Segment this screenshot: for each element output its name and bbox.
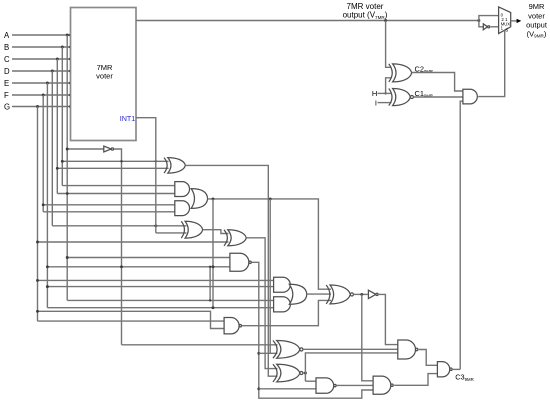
xor gate X3 bbox=[228, 230, 247, 246]
wire XN2 riser to N5 input c bbox=[305, 353, 397, 381]
wire L17 to N2 input b bbox=[38, 311, 225, 328]
wire L14 to A3 input b bbox=[47, 286, 273, 288]
node A branch junction bbox=[66, 34, 69, 37]
wire L12 to N1 input b bbox=[47, 266, 229, 268]
wire input B bbox=[12, 46, 71, 48]
xnor gate X-C1 bbox=[393, 89, 411, 106]
wire N1 output column M2 / bottom rail to N4 input c bbox=[252, 262, 374, 398]
wire input C bbox=[12, 58, 71, 60]
wire L5 to A2 input a bbox=[43, 204, 175, 206]
svg-text:G: G bbox=[4, 102, 10, 111]
wire input D bbox=[12, 70, 71, 72]
wire G vertical branch bbox=[37, 107, 39, 322]
wire O2 output to XN3 input b bbox=[307, 293, 331, 295]
nand gate N6 (C3) bbox=[437, 362, 449, 377]
wire input G bbox=[12, 106, 71, 108]
wire mux output bbox=[511, 20, 518, 22]
wire M5 column to XN1 input b bbox=[269, 199, 271, 353]
wire buffer input from A column bbox=[67, 148, 104, 150]
wire L4 to A1 input b bbox=[57, 193, 175, 195]
nand gate N1 bbox=[230, 253, 249, 271]
svg-text:output: output bbox=[526, 21, 548, 30]
wire N3 output to N4 input b bbox=[336, 384, 373, 386]
wire N4 output to N6 input b bbox=[394, 374, 437, 386]
node G branch junction bbox=[36, 105, 39, 108]
wire L11 to N1 input a bbox=[67, 257, 229, 259]
node E branch junction bbox=[46, 82, 49, 85]
svg-text:H: H bbox=[372, 89, 377, 98]
wire L19 buffer column to XN1 input a bbox=[122, 344, 278, 346]
node C branch junction bbox=[56, 58, 59, 61]
wire F vertical branch bbox=[42, 95, 44, 212]
nand gate N2 bbox=[224, 318, 239, 334]
wire L1 to X1 input a bbox=[62, 160, 168, 162]
wire H input bbox=[378, 92, 392, 94]
and gate A4 bbox=[274, 297, 291, 312]
node B branch junction bbox=[61, 46, 64, 49]
nand gate N3 bbox=[316, 378, 334, 393]
wire I input bbox=[378, 102, 392, 104]
svg-text:S: S bbox=[505, 28, 508, 33]
svg-text:F: F bbox=[4, 91, 9, 100]
wire inverter to mux pin 1 bbox=[491, 26, 499, 28]
7MR voter block U1 bbox=[71, 8, 137, 141]
wire L15 to A4 input a bbox=[67, 299, 273, 301]
and gate A1 bbox=[175, 182, 190, 197]
node D branch junction bbox=[51, 70, 54, 73]
svg-text:voter: voter bbox=[528, 11, 545, 20]
svg-text:B: B bbox=[4, 43, 9, 52]
svg-text:INT1: INT1 bbox=[120, 114, 136, 123]
wire 7MR voter output net bbox=[136, 20, 479, 22]
wire C1 output to A5 bbox=[413, 96, 463, 98]
wire L3 to A1 input a bbox=[62, 185, 175, 187]
svg-text:D: D bbox=[4, 67, 10, 76]
xor gate X2 bbox=[185, 221, 203, 238]
xnor gate XN3 (3-input) bbox=[330, 285, 350, 304]
wire input A bbox=[12, 34, 71, 36]
wire L16 to A4 input b bbox=[47, 307, 273, 309]
wire N2 output to XN3 input c bbox=[242, 300, 331, 325]
svg-text:9MR: 9MR bbox=[529, 2, 545, 11]
svg-text:C: C bbox=[4, 55, 10, 64]
wire O1 output to XN3 input a bbox=[208, 199, 331, 289]
wire XN2 riser to N3 input a bbox=[305, 380, 316, 382]
buffer U2 (INT1/A buffer) bbox=[104, 146, 111, 152]
wire X1 output column M4 to XN2 input b bbox=[185, 165, 277, 376]
nand gate N4 (3-input) bbox=[373, 376, 391, 394]
wire L6 to A2 input b bbox=[43, 211, 175, 213]
svg-text:A: A bbox=[4, 31, 10, 40]
wire U5 output to N5 input a bbox=[378, 294, 398, 344]
mux U3 2:1 bbox=[499, 7, 511, 34]
wire C3 riser to A5 input c bbox=[460, 101, 463, 369]
svg-text:E: E bbox=[4, 79, 9, 88]
wire M1 column (O1 tap riser) bbox=[212, 199, 214, 308]
and gate A2 bbox=[175, 201, 190, 216]
inverter U5 bbox=[368, 290, 376, 298]
wire M2 tap to XN1 input b bbox=[259, 352, 278, 354]
node F branch junction bbox=[42, 94, 45, 97]
wire L7 from D to X2 input a bbox=[52, 225, 186, 227]
xor gate X1 bbox=[168, 158, 186, 174]
wire D vertical branch bbox=[51, 71, 53, 226]
wire L10 to X3 input b bbox=[38, 241, 229, 243]
wire C vertical branch bbox=[56, 59, 58, 194]
wire A5 output to mux select S bbox=[478, 30, 505, 96]
wire XN3 output to inverter U5 bbox=[353, 293, 367, 295]
wire L13 to A3 input a bbox=[38, 279, 274, 281]
wire mux input-1 jog bbox=[479, 21, 483, 27]
xnor gate XN1 bbox=[277, 341, 300, 359]
wire INT1 net bbox=[136, 118, 156, 233]
and gate A5 (mux select) bbox=[463, 89, 477, 104]
wire XN1 output to N5 input b bbox=[303, 348, 398, 350]
wire L18 to N2 input a bbox=[38, 320, 225, 322]
wire M6 column to N4 input a bbox=[362, 294, 373, 380]
wire N5 output to N6 input a bbox=[419, 350, 438, 366]
wire R2 riser linking N1 input b line to A4 input a line bbox=[209, 267, 211, 301]
inverter U4 before mux bbox=[483, 24, 487, 30]
wire INT1 riser to X2 input b bbox=[156, 232, 187, 234]
svg-text:I: I bbox=[375, 98, 377, 107]
wire X3 output column M3 to XN2 input a bbox=[246, 238, 277, 369]
wire buffer output riser bbox=[114, 149, 122, 345]
wire H tap riser to X-C2 input b bbox=[386, 78, 391, 94]
mux output arrowhead bbox=[517, 19, 522, 23]
or gate O1 bbox=[191, 189, 207, 209]
wire M2 tap to N3 input b bbox=[259, 388, 316, 390]
wire A vertical branch bbox=[66, 35, 68, 300]
and gate A3 bbox=[274, 277, 291, 292]
xor gate X-C2 bbox=[393, 64, 412, 82]
wire XN2 output junction bbox=[303, 372, 305, 374]
wire N6 output C3 riser bbox=[453, 368, 460, 370]
wire input F bbox=[12, 94, 71, 96]
xnor gate XN2 bbox=[277, 364, 300, 382]
wire C2 output to A5 bbox=[412, 73, 463, 92]
or gate O2 bbox=[289, 284, 307, 304]
wire mux input-0 jog bbox=[479, 16, 499, 21]
nand gate N5 (3-input) bbox=[398, 340, 416, 359]
wire L2 to X1 input b bbox=[57, 167, 168, 169]
wire B vertical branch bbox=[61, 47, 63, 186]
svg-text:voter: voter bbox=[96, 71, 113, 80]
wire X2 output to X3 input a bbox=[203, 230, 229, 234]
wire input E bbox=[12, 82, 71, 84]
wire E vertical branch bbox=[46, 83, 48, 308]
wire V7MR riser to X-C2 input a bbox=[386, 21, 391, 68]
